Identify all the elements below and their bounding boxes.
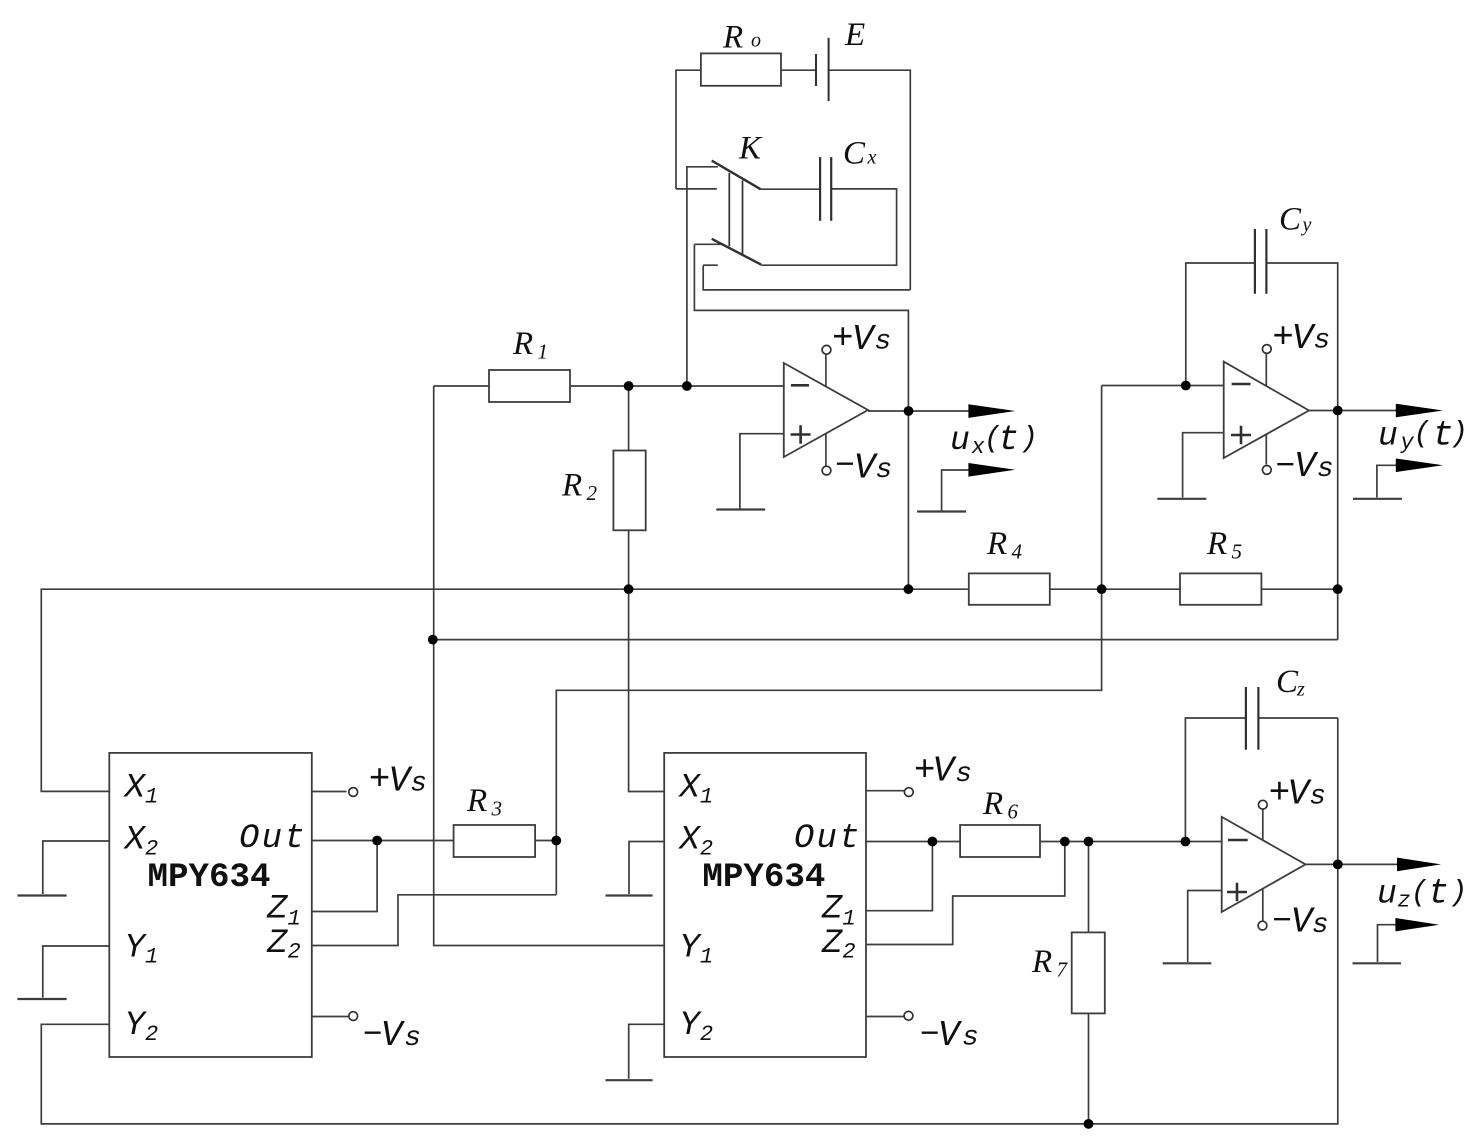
svg-text:5: 5 — [1232, 540, 1243, 564]
svg-text:u: u — [950, 422, 970, 459]
svg-text:V: V — [381, 1015, 406, 1056]
op-amp U5 minus sign — [1232, 383, 1251, 386]
pin terminal +Vs of op-amp U1 — [822, 345, 831, 354]
svg-text:Z: Z — [821, 891, 843, 929]
pin label X1 of U2 — [123, 770, 159, 810]
arrow uz ground terminal — [1395, 918, 1439, 931]
svg-text:t: t — [1428, 874, 1449, 914]
wire bus 1 left section (op-amp U1 output net) — [41, 589, 969, 791]
svg-text:1: 1 — [700, 945, 713, 970]
wire capacitor Cy left leg — [1186, 263, 1255, 386]
wire stub D down and right to battery right vertical — [703, 265, 910, 290]
op-amp U6 triangle — [1222, 817, 1306, 912]
svg-text:s: s — [962, 1022, 979, 1053]
op-amp U5 triangle — [1224, 362, 1309, 458]
wire Y1 of U2 (MPY1) to ground — [43, 946, 110, 998]
svg-text:−: − — [1272, 903, 1292, 940]
wire R3 right to node — [535, 840, 556, 842]
power label +Vs of op-amp U1 — [832, 318, 891, 360]
capacitor Cy right plate — [1265, 229, 1267, 294]
svg-text:(: ( — [1411, 875, 1429, 909]
svg-text:): ) — [1450, 875, 1468, 909]
capacitor Cz left plate — [1245, 687, 1247, 750]
switch K upper pole contact stub A (to op-amp U1 inverting input) — [687, 167, 718, 386]
pin label X2 of U3 — [677, 822, 713, 862]
wire Z2 net riser of U2 (MPY1) to R3 right node — [556, 386, 1101, 895]
svg-text:K: K — [738, 131, 763, 167]
wire Z1 of U3 (MPY2) up to Out node — [866, 842, 932, 911]
wire op-amp U5 inverting input line — [1102, 385, 1224, 387]
svg-text:u: u — [1378, 418, 1398, 455]
wire R6 right to op-amp U6 inverting input — [1040, 841, 1222, 843]
wire node A vertical: R1 left down to Y1 of U3 (MPY2) — [434, 386, 665, 946]
capacitor Cx right plate — [830, 157, 832, 221]
arrow ux output — [968, 404, 1015, 418]
svg-text:+: + — [1272, 317, 1294, 358]
svg-text:u: u — [1377, 876, 1397, 913]
pin label Y1 of U2 — [125, 930, 159, 970]
svg-text:Out: Out — [239, 820, 307, 858]
wire capacitor Cy right leg to op-amp U5 output vertical — [1266, 263, 1337, 640]
wire op-amp U1 noninverting input to ground — [740, 434, 784, 509]
svg-text:1: 1 — [842, 907, 855, 932]
arrow uy output — [1396, 404, 1443, 418]
switch K lower pole contact stub C — [694, 243, 724, 245]
pin label Z2 of U2 — [266, 925, 301, 965]
ground at Y2 of U3 — [606, 1079, 653, 1081]
power label -Vs of op-amp U1 — [835, 447, 892, 488]
resistor R2 — [613, 451, 645, 531]
svg-text:R: R — [1031, 944, 1052, 980]
op-amp U1 minus sign — [791, 384, 809, 387]
svg-text:s: s — [875, 327, 892, 358]
svg-text:1: 1 — [145, 945, 158, 970]
pin terminal -Vs of op-amp U5 — [1262, 466, 1271, 475]
resistor R5 — [1180, 573, 1261, 604]
ground at op-amp U6 noninverting input — [1163, 962, 1212, 964]
svg-text:−: − — [1275, 448, 1295, 485]
svg-text:C: C — [1276, 664, 1299, 700]
wire -Vs pin of U3 (MPY2) — [866, 1016, 905, 1018]
junction node U5 inverting input / Cy — [1181, 381, 1191, 391]
pin terminal -Vs of U2 MPY634 — [349, 1012, 358, 1021]
switch K lower pole contact stub D — [703, 264, 718, 266]
svg-text:X: X — [123, 822, 147, 860]
svg-text:V: V — [1294, 446, 1319, 487]
pin label X2 of U2 — [123, 822, 159, 862]
wire op-amp U5 -Vs pin stem — [1265, 434, 1267, 465]
svg-text:7: 7 — [1057, 958, 1069, 982]
wire capacitor Cz right leg — [1258, 717, 1337, 719]
svg-text:s: s — [1309, 781, 1326, 812]
wire Out of U2 (MPY1) to R3 — [312, 840, 454, 842]
svg-text:z: z — [1296, 679, 1305, 701]
wire R7 bottom leg to bottom bus — [1088, 1013, 1090, 1124]
junction node bus1 / U1 output riser — [904, 584, 914, 594]
pin terminal -Vs of op-amp U6 — [1258, 921, 1267, 930]
resistor R3 — [454, 825, 535, 857]
svg-text:3: 3 — [491, 797, 503, 821]
svg-text:2: 2 — [587, 481, 598, 505]
resistor R6 — [960, 825, 1040, 857]
svg-text:X: X — [677, 822, 701, 860]
op-amp U1 triangle — [784, 363, 868, 457]
pin label Z1 of U2 — [266, 891, 301, 932]
junction node R2 top / U1 input — [624, 381, 634, 391]
svg-text:R: R — [986, 526, 1007, 562]
wire R1 to op-amp U1 inverting input — [570, 385, 784, 387]
resistor R7 — [1072, 932, 1105, 1013]
junction node U5 output — [1333, 406, 1343, 416]
wire output terminal return to ground (uy) — [1377, 465, 1396, 497]
wire +Vs pin of U2 (MPY1) — [312, 791, 347, 793]
wire op-amp U5 +Vs pin stem — [1265, 353, 1267, 386]
pin label X1 of U3 — [677, 770, 713, 810]
op-amp U6 minus sign — [1228, 839, 1248, 842]
pin terminal +Vs of op-amp U5 — [1262, 345, 1271, 354]
power label -Vs of U2 MPY634 — [363, 1015, 421, 1056]
power label -Vs of U3 MPY634 — [920, 1015, 979, 1056]
svg-text:Z: Z — [821, 925, 843, 963]
ground at op-amp U1 noninverting input — [716, 508, 765, 510]
power label -Vs of op-amp U5 — [1275, 446, 1333, 487]
multiplier U2 MPY634 box — [109, 753, 311, 1057]
capacitor Cx left plate — [819, 157, 821, 221]
wire R2 bottom through bus 1 down to X1 of U3 (MPY2) — [629, 530, 665, 791]
svg-text:V: V — [852, 319, 877, 360]
svg-text:−: − — [835, 448, 855, 485]
svg-text:MPY634: MPY634 — [148, 859, 271, 897]
wire output terminal return to ground (uz) — [1378, 925, 1396, 962]
switch K link line 2 — [742, 180, 744, 254]
svg-text:s: s — [1317, 454, 1334, 485]
resistor R1 — [489, 370, 570, 402]
wire op-amp U5 output to arrow uy — [1309, 410, 1396, 412]
battery E long plate — [828, 38, 830, 101]
wire op-amp U6 output to arrow uz — [1306, 863, 1398, 865]
wire op-amp U1 -Vs pin stem — [825, 434, 827, 467]
wire op-amp U1 output to arrow ux — [868, 410, 969, 412]
svg-text:X: X — [123, 770, 147, 808]
svg-text:R: R — [466, 783, 487, 819]
arrow ux ground terminal — [968, 463, 1015, 477]
svg-text:s: s — [404, 1023, 421, 1054]
svg-text:): ) — [1450, 416, 1468, 450]
svg-text:1: 1 — [538, 340, 549, 364]
wire Out of U3 (MPY2) to R6 — [866, 841, 960, 843]
pin label Y1 of U3 — [679, 930, 713, 970]
capacitor Cy left plate — [1254, 229, 1256, 294]
junction node bus1 right / U5 output — [1333, 584, 1343, 594]
wire bus 1 right section (R5 to op-amp U5 output) — [1261, 588, 1337, 590]
svg-text:1: 1 — [145, 785, 158, 810]
ground at uz output terminal — [1353, 962, 1402, 964]
resistor R4 — [969, 573, 1050, 604]
multiplier U3 MPY634 box — [664, 753, 866, 1057]
svg-text:t: t — [998, 420, 1019, 460]
svg-text:R: R — [722, 20, 743, 56]
svg-text:y: y — [1400, 431, 1415, 456]
wire Z2 of U3 (MPY2) up to R6 right node — [866, 842, 1065, 945]
svg-text:o: o — [751, 30, 761, 52]
svg-text:C: C — [1279, 202, 1302, 238]
junction node U2 Out / Z1 — [372, 836, 382, 846]
pin terminal -Vs of U3 MPY634 — [904, 1011, 913, 1020]
svg-text:2: 2 — [288, 940, 301, 965]
svg-text:s: s — [1314, 326, 1331, 357]
junction node U3 Out / Z1 — [928, 837, 938, 847]
switch K upper blade — [712, 161, 761, 190]
wire battery to right loop corner, down to switch contact D line — [829, 70, 911, 290]
ground at op-amp U5 noninverting input — [1157, 498, 1206, 500]
switch K upper pole contact stub B (from battery left) — [676, 188, 717, 190]
junction node bus1 / U5 input riser — [1097, 584, 1107, 594]
junction node R3 right — [551, 836, 561, 846]
resistor Ro — [701, 53, 781, 85]
junction node bus2 left — [428, 635, 438, 645]
pin label Z2 of U3 — [821, 925, 856, 965]
svg-text:s: s — [1312, 910, 1329, 941]
junction node U6 inverting input / Cz — [1181, 837, 1191, 847]
battery E short plate — [815, 54, 817, 86]
svg-text:2: 2 — [700, 1022, 713, 1047]
ground at X2 of U3 — [606, 894, 653, 896]
junction node U1 output — [904, 406, 914, 416]
wire bus 1 mid section (R4 to R5) — [1050, 588, 1180, 590]
pin terminal +Vs of op-amp U6 — [1258, 800, 1267, 809]
wire R2 top stub — [628, 386, 630, 451]
capacitor Cz right plate — [1257, 687, 1259, 750]
wire bus 3 (R3 node to op-amp U5 inverting input vertical) — [312, 895, 557, 946]
wire op-amp U6 +Vs pin stem — [1262, 809, 1264, 840]
switch K lower blade — [712, 239, 762, 265]
wire Y2 of U3 (MPY2) to ground — [629, 1024, 665, 1078]
wire op-amp U1 +Vs pin stem — [825, 354, 827, 387]
op-amp U6 plus sign — [1227, 883, 1247, 902]
junction node U6 output — [1333, 860, 1343, 870]
svg-text:x: x — [867, 147, 877, 169]
svg-text:+: + — [369, 759, 391, 800]
svg-text:2: 2 — [145, 1022, 158, 1047]
svg-text:V: V — [933, 751, 958, 792]
svg-text:Out: Out — [794, 820, 862, 858]
svg-text:(: ( — [1413, 416, 1431, 450]
svg-text:V: V — [938, 1015, 963, 1056]
switch K link line 1 — [728, 173, 730, 246]
svg-text:−: − — [920, 1017, 940, 1054]
wire output terminal return to ground (ux) — [942, 470, 969, 511]
svg-text:−: − — [363, 1016, 383, 1053]
svg-text:1: 1 — [700, 785, 713, 810]
arrow uy ground terminal — [1396, 459, 1443, 473]
op-amp U5 plus sign — [1231, 426, 1251, 445]
wire Ro to battery — [781, 69, 816, 71]
power label +Vs of U3 MPY634 — [914, 750, 972, 792]
svg-text:2: 2 — [842, 940, 855, 965]
wire op-amp U6 -Vs pin stem — [1262, 889, 1264, 921]
svg-text:z: z — [1398, 889, 1411, 914]
wire stub C down and right to op-amp U1 output vertical — [694, 244, 908, 589]
pin terminal +Vs of U3 MPY634 — [904, 788, 913, 797]
wire R7 top leg — [1088, 842, 1090, 933]
svg-text:s: s — [955, 759, 972, 790]
junction node bus1 / R2 — [624, 584, 634, 594]
wire bus 2 (op-amp U5 output feedback to node A) — [433, 639, 1338, 641]
svg-text:R: R — [982, 786, 1003, 822]
wire top loop left segment — [676, 70, 701, 189]
svg-text:X: X — [677, 770, 701, 808]
arrow uz output — [1397, 858, 1441, 872]
wire -Vs pin of U2 (MPY1) — [312, 1016, 349, 1018]
wire R1 input line from node A vertical — [434, 385, 489, 387]
power label -Vs of op-amp U6 — [1272, 902, 1329, 943]
wire upper blade tip to capacitor Cx left plate — [761, 188, 820, 190]
wire +Vs pin of U3 (MPY2) — [866, 790, 904, 792]
ground at Y1 of U2 — [17, 998, 66, 1000]
power label +Vs of op-amp U5 — [1272, 317, 1330, 359]
pin label Z1 of U3 — [821, 891, 856, 932]
svg-text:s: s — [876, 455, 893, 486]
wire op-amp U5 noninverting input to ground — [1183, 433, 1224, 498]
svg-text:R: R — [1206, 526, 1227, 562]
junction node R7 top — [1084, 837, 1094, 847]
svg-text:C: C — [843, 135, 866, 171]
svg-text:s: s — [410, 769, 427, 800]
pin terminal -Vs of op-amp U1 — [822, 466, 831, 475]
svg-text:Z: Z — [266, 891, 288, 929]
svg-text:+: + — [832, 318, 854, 359]
svg-text:R: R — [561, 467, 582, 503]
wire X2 of U2 (MPY1) to ground — [43, 841, 110, 894]
op-amp U1 plus sign — [791, 425, 811, 444]
svg-text:4: 4 — [1012, 540, 1023, 564]
ground at uy output terminal — [1353, 498, 1402, 500]
power label +Vs of U2 MPY634 — [369, 759, 427, 802]
junction node bottom bus / R7 — [1084, 1119, 1094, 1129]
svg-text:E: E — [844, 17, 865, 53]
wire capacitor Cz left leg — [1185, 718, 1246, 842]
svg-text:Z: Z — [266, 925, 288, 963]
svg-text:): ) — [1020, 421, 1038, 455]
svg-text:R: R — [512, 326, 533, 362]
wire Y2 of U2 (MPY1) to bottom bus and op-amp U6 output riser — [41, 718, 1338, 1124]
wire capacitor Cx right plate to lower blade tip — [761, 189, 896, 265]
svg-text:1: 1 — [288, 907, 301, 932]
pin label Y2 of U3 — [679, 1007, 713, 1047]
ground at X2 of U2 — [17, 894, 66, 896]
wire op-amp U6 noninverting input to ground — [1188, 891, 1222, 963]
svg-text:MPY634: MPY634 — [702, 859, 825, 897]
ground at ux output terminal — [917, 510, 966, 512]
wire Z1 of U2 (MPY1) up to Out node — [312, 841, 377, 912]
junction node switch vertical / U1 input — [682, 381, 692, 391]
svg-text:6: 6 — [1008, 800, 1019, 824]
svg-text:y: y — [1301, 214, 1312, 236]
svg-text:2: 2 — [700, 837, 713, 862]
wire X2 of U3 (MPY2) to ground — [629, 842, 664, 895]
pin terminal +Vs of U2 MPY634 — [349, 788, 358, 797]
junction node R6 right / Z2 riser — [1060, 837, 1070, 847]
power label +Vs of op-amp U6 — [1269, 772, 1326, 814]
pin label Y2 of U2 — [125, 1007, 159, 1047]
svg-text:2: 2 — [145, 837, 158, 862]
